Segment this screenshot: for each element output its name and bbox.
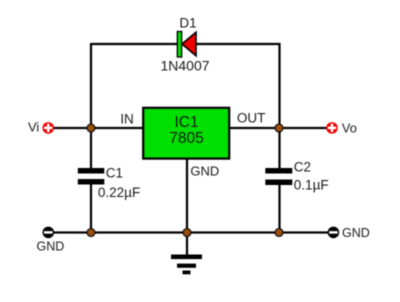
wire left vertical (node A to C1) <box>90 128 92 168</box>
capacitor C2 <box>265 168 292 185</box>
capacitor C1 <box>78 168 105 185</box>
wire left vertical (top rail to node A) <box>90 43 92 128</box>
wire OUT pin to node B <box>229 127 279 129</box>
node E junction <box>275 229 283 237</box>
svg-text:GND: GND <box>342 226 370 240</box>
wire GND pin vertical <box>186 158 188 233</box>
svg-text:0.1µF: 0.1µF <box>294 178 329 193</box>
wire left vertical (C1 to node C) <box>90 185 92 233</box>
svg-text:IN: IN <box>120 112 134 127</box>
svg-text:IC1: IC1 <box>174 114 198 131</box>
node C junction <box>87 229 95 237</box>
diode D1 <box>177 32 196 58</box>
svg-text:0.22µF: 0.22µF <box>98 185 140 200</box>
svg-text:Vo: Vo <box>342 120 357 135</box>
terminal GND right <box>328 227 340 239</box>
svg-text:1N4007: 1N4007 <box>160 58 209 74</box>
wire ground stem <box>186 233 188 256</box>
terminal GND left <box>43 227 55 239</box>
wire right vertical (top rail to node B) <box>278 43 280 128</box>
svg-text:GND: GND <box>190 163 219 178</box>
wire Vi terminal to node A <box>48 127 91 129</box>
svg-text:OUT: OUT <box>237 110 266 125</box>
node A junction <box>87 124 95 132</box>
svg-text:D1: D1 <box>179 16 196 31</box>
svg-text:C1: C1 <box>106 166 123 181</box>
op-amp U1: regulator IC1 7805 body <box>143 108 229 159</box>
node D junction <box>183 229 191 237</box>
wire top rail (left of D1) <box>91 43 178 45</box>
node B junction <box>275 124 283 132</box>
wire node A to IN pin <box>91 127 143 129</box>
svg-text:7805: 7805 <box>169 130 203 147</box>
svg-text:Vi: Vi <box>28 120 39 135</box>
terminal Vo <box>326 122 338 134</box>
wire bottom rail <box>48 231 333 233</box>
wire right vertical (C2 to node E) <box>278 185 280 233</box>
wire top rail (right of D1) <box>196 43 281 45</box>
terminal Vi <box>42 122 54 134</box>
svg-text:GND: GND <box>37 240 65 254</box>
ground <box>171 255 202 275</box>
svg-text:C2: C2 <box>294 160 311 175</box>
wire right vertical (node B to C2) <box>278 128 280 168</box>
wire node B to Vo terminal <box>279 127 332 129</box>
